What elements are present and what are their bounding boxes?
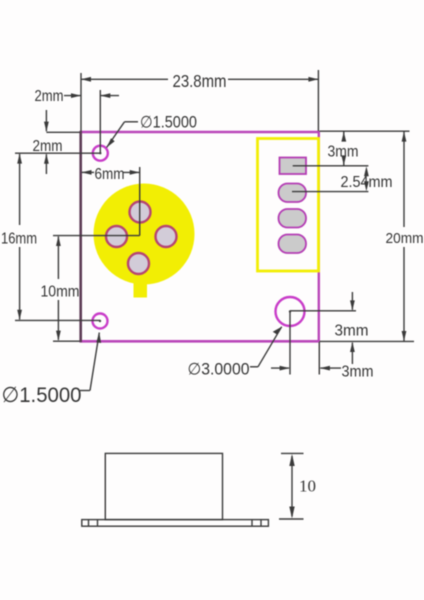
side view base tick left 1 [88,520,90,527]
arrow dim10 bottom (points down) [289,507,294,519]
dim 2mm left bottom arrow tail [45,154,47,174]
ext line sensor center horizontal [53,235,140,237]
dim 10 ext top [281,452,304,454]
mounting hole H2 bottom-left [93,314,108,329]
arrow 2mm top left (points right at board edge) [71,93,81,98]
arrow 2mm left bottom (points up at hole line) [44,154,49,164]
arrow 2mm left top (points down at board top) [44,122,49,132]
sensor hole top [130,202,151,223]
arrow 3mm pad bottom (points down) [341,155,346,165]
svg-text:∅3.0000: ∅3.0000 [188,361,250,379]
leader ø1.5000 bottom diagonal [90,333,99,391]
svg-text:10: 10 [299,477,316,496]
arrow 3mm bottom right (points left at corner vline) [320,366,330,371]
svg-text:2mm: 2mm [35,88,64,105]
arrow leader ø3.0000 (points up-right at hole) [273,327,282,335]
dim 10mm line upper segment [57,237,59,280]
arrow 20mm bottom (points down) [402,331,407,341]
arrow 2mm top right (points left at hole line) [100,93,110,98]
dim 10 line [291,456,293,517]
leader ø3.0000 horizontal [250,366,258,368]
dim 2mm top line right tail [100,95,119,97]
board outline top edge [80,131,320,134]
side view base tick right 1 [251,520,253,527]
ext line board top left [46,131,80,133]
ext line hole2 center horizontal [15,319,100,321]
svg-text:16mm: 16mm [1,231,37,248]
ext line sensor center vertical [139,167,141,236]
dim 3mm pad line lower [343,158,345,166]
arrow 3mm right bottom (points up at board bottom) [350,342,355,352]
ext line pad2 center [292,191,368,193]
side view base tick right 2 [260,520,262,527]
svg-text:10mm: 10mm [41,284,80,301]
pad 3 [279,209,307,228]
dim 20mm line upper segment [403,131,405,227]
arrow leader ø1.5000 top (points down-left at hole) [107,138,115,147]
svg-text:3mm: 3mm [335,323,369,340]
ext line pad1 center [293,165,369,167]
dim 23.8mm extension left [80,73,82,131]
sensor tab [134,282,148,298]
arrow 10mm bottom (points down) [56,331,61,341]
dim 23.8mm line right segment [228,78,318,80]
arrow dim10 top (points up) [289,454,294,466]
side view base plate [82,520,269,527]
pad 2 [279,184,307,203]
mounting hole H3 bottom-right [276,297,305,326]
board outline right edge [318,132,320,342]
arrow 3mm pad top (points up) [341,132,346,142]
arrow 3mm bottom left (points right at hole3 vline) [280,366,290,371]
svg-text:2.54mm: 2.54mm [341,174,393,191]
svg-text:6mm: 6mm [95,166,125,183]
dim 2mm left top arrow tail [45,110,47,131]
svg-text:20mm: 20mm [386,230,424,247]
arrow 6mm left (points left) [82,170,92,175]
svg-text:∅1.5000: ∅1.5000 [140,114,197,132]
leader ø3.0000 diagonal [258,327,282,367]
arrow 2.54mm bottom (points down at pad2 line) [364,181,369,191]
arrow 6mm right (points right) [130,170,140,175]
dim 16mm line lower segment [19,247,21,320]
arrow 3mm right top (points down at hole3 line) [350,300,355,310]
board outline bottom edge [80,340,320,343]
dim 23.8mm line left segment [81,78,168,80]
dim 23.8mm extension right [317,70,319,131]
svg-text:23.8mm: 23.8mm [173,71,227,91]
leader ø1.5000 top horizontal [125,121,139,123]
H2 center dot [99,320,101,322]
ext line board bottom right [320,340,415,342]
dim 3mm right bottom arrow tail [351,343,353,364]
ext line board right corner vertical [318,342,320,375]
ext line board bottom left [53,340,80,342]
sensor hole bottom [128,253,149,274]
ext line hole3 center horizontal [290,310,356,312]
leader ø1.5000 bottom horizontal [80,390,90,392]
H1 center dot [99,152,101,154]
dim 20mm line lower segment [403,247,405,341]
arrow leader ø1.5000 bottom (points up at hole) [96,333,101,344]
svg-text:3mm: 3mm [342,364,374,381]
arrow 23.8mm right [308,77,318,82]
ext line hole3 center vertical [289,312,291,375]
mounting hole H1 top-left [93,146,108,161]
connector yellow box [258,139,319,272]
leader ø1.5000 top diagonal [107,122,125,148]
dim 10 ext bottom [279,518,304,520]
sensor hole left [106,226,127,247]
arrow 23.8mm left [81,77,91,82]
dim 3mm bottom right arrow tail [320,367,341,369]
dim 3mm bottom left arrow tail [271,367,289,369]
ext line hole1 center vertical [99,90,101,153]
pad 4 [279,235,307,254]
arrow 16mm top (points up) [17,154,22,164]
board outline left edge (dark) [79,131,82,342]
svg-text:2mm: 2mm [33,138,63,155]
sensor hole right [156,226,177,247]
dim 6mm line left segment [82,171,95,173]
arrow 20mm top (points up) [402,132,407,142]
pad 1 (square) [280,158,307,175]
H3 center dot [289,310,291,312]
dim 2mm top line left [64,95,81,97]
ext line board top right [320,130,410,132]
dim 3mm right top arrow tail [351,292,353,310]
ext line hole1 center horizontal [15,152,100,154]
dim 3mm pad line [343,131,345,140]
dim 16mm line upper segment [19,154,21,225]
dim 6mm line right segment [123,171,140,173]
svg-text:3mm: 3mm [328,144,359,161]
arrow 16mm bottom (points down) [17,310,22,320]
dim 10mm line lower segment [57,300,59,340]
side view base tick left 2 [97,520,99,527]
side view body [105,453,222,519]
arrow 10mm top (points up) [56,236,61,246]
arrow 2.54mm top (points up at pad1 line) [364,166,369,176]
svg-text:∅1.5000: ∅1.5000 [2,383,82,407]
sensor yellow body [94,184,195,285]
